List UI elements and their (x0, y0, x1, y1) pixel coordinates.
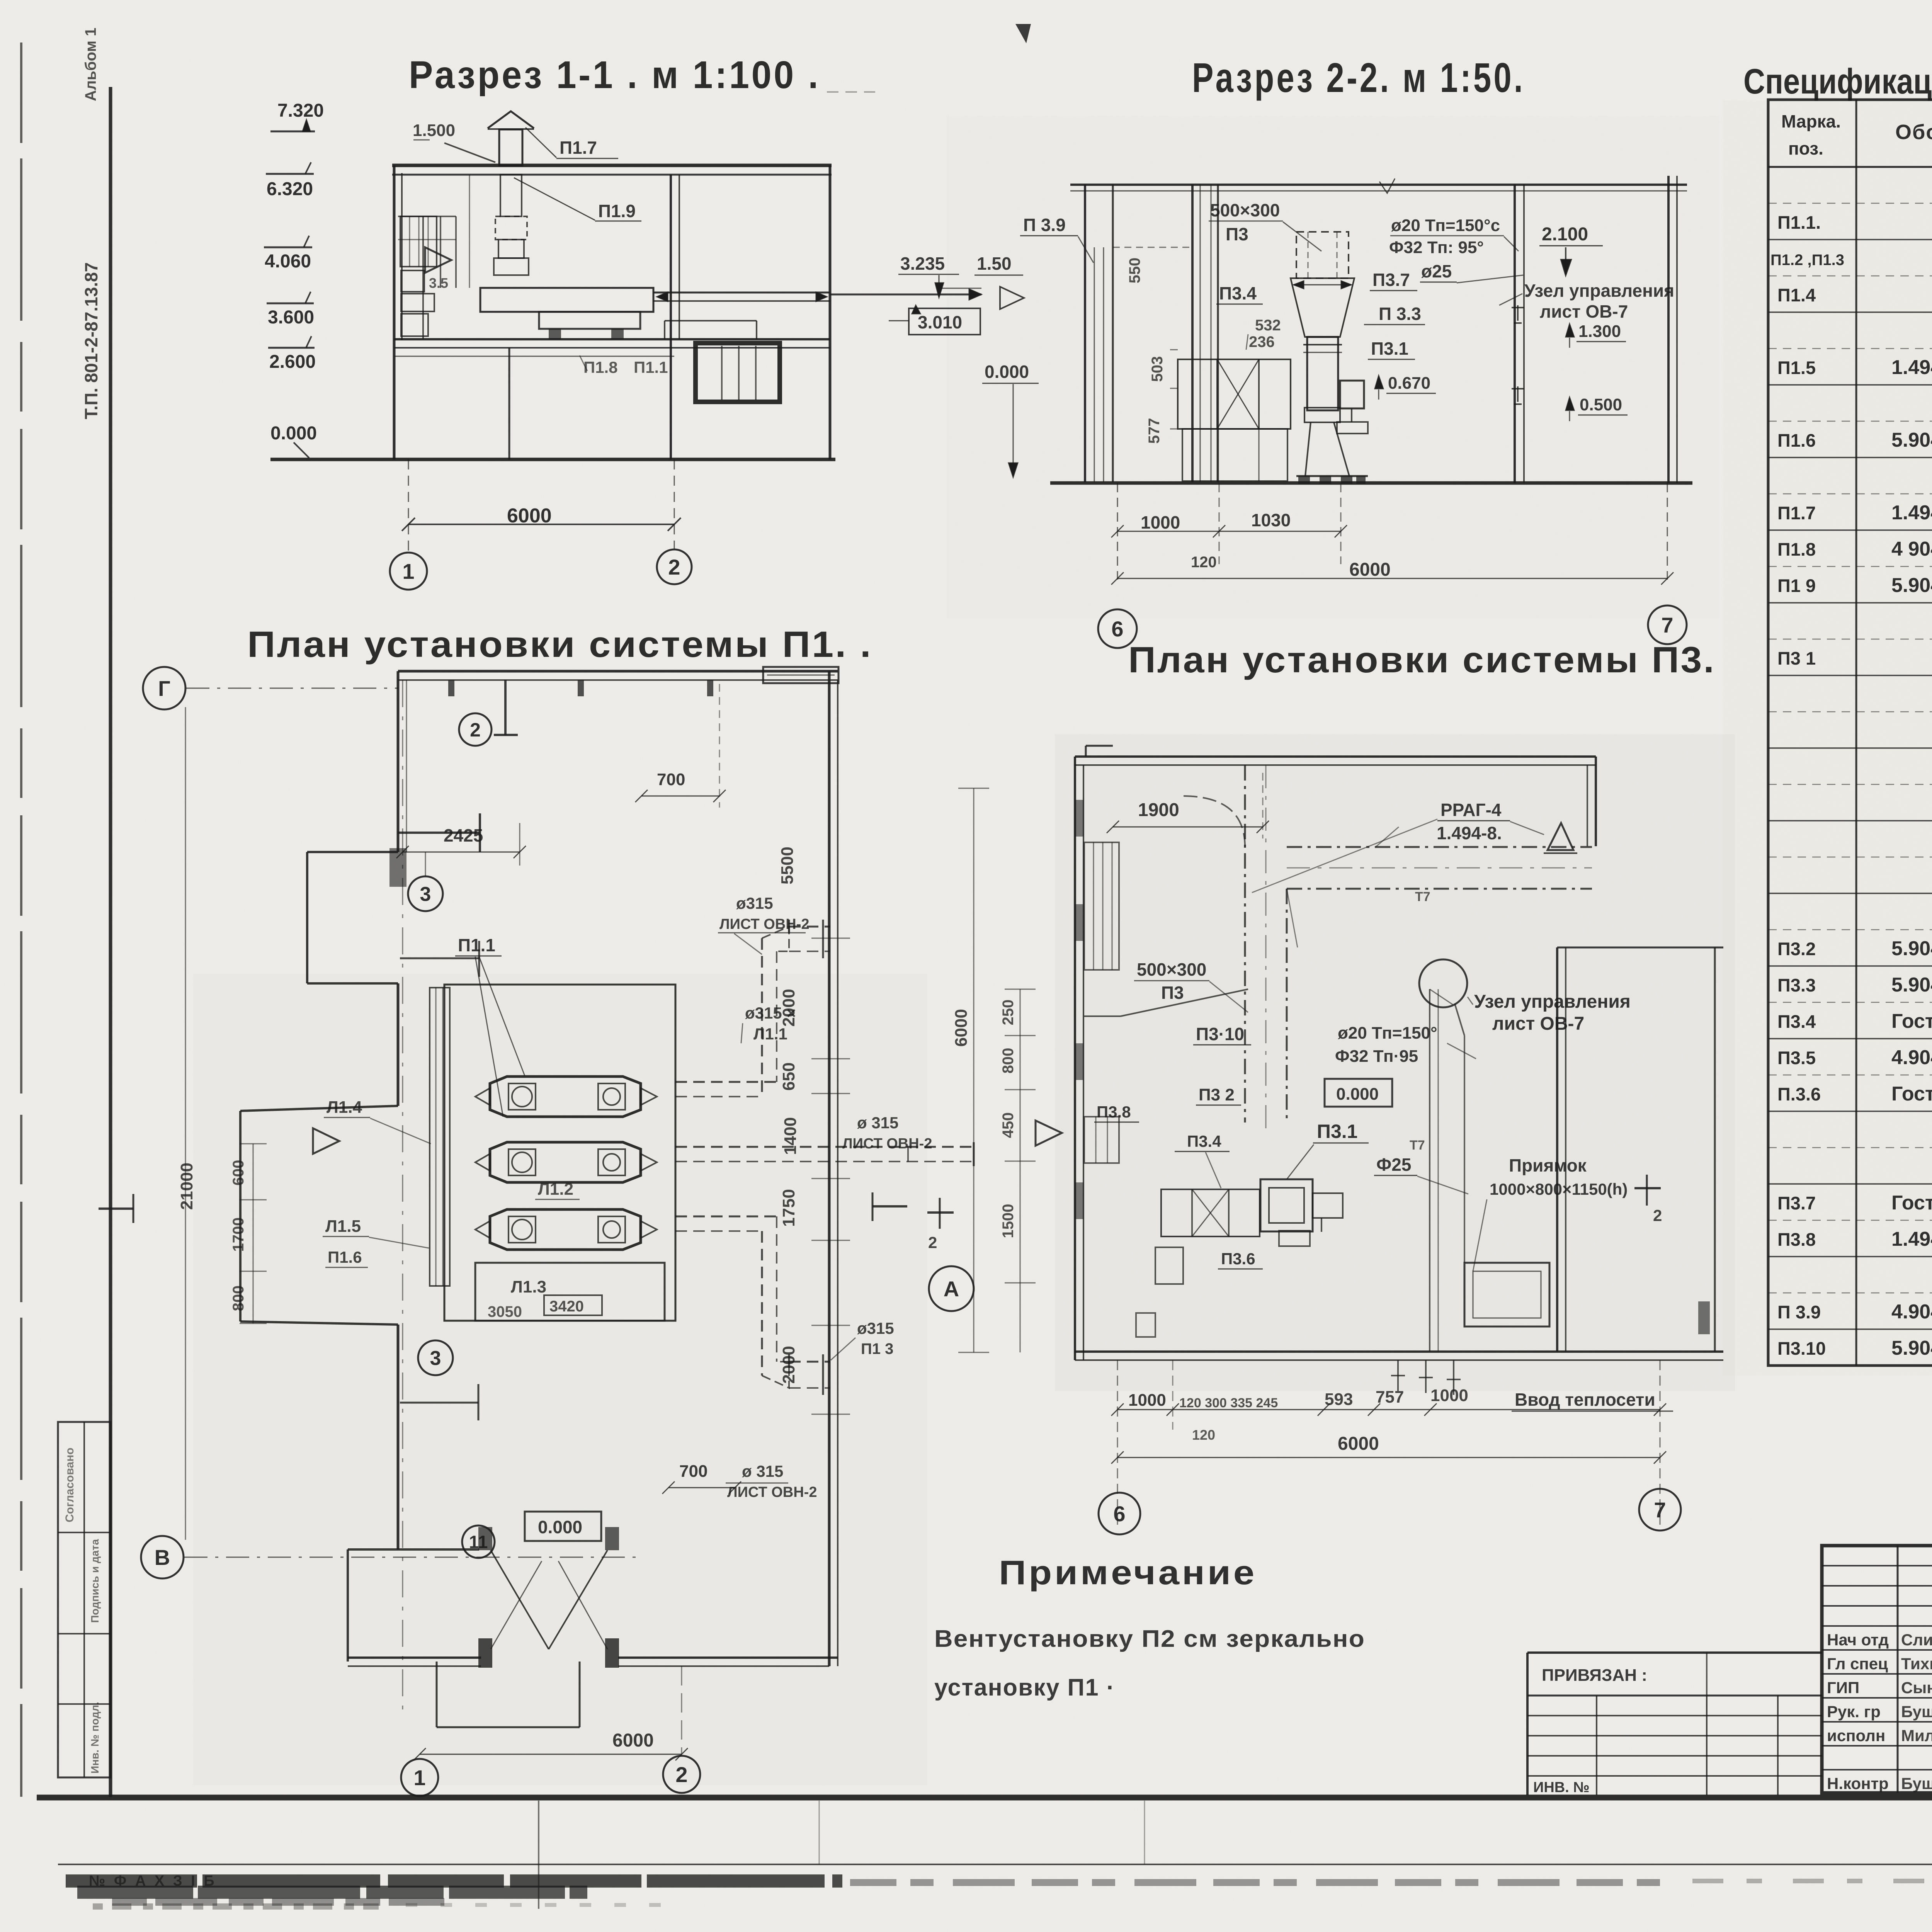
svg-text:П3.5: П3.5 (1777, 1048, 1816, 1068)
axis circle 7 plan P3 (1639, 1489, 1681, 1531)
rotated dim 550 section 2-2 (1113, 247, 1192, 283)
uzel upravleniya note section 2-2 (1499, 281, 1674, 321)
svg-text:Вентустановку П2 см зеркаль: Вентустановку П2 см зеркально (934, 1626, 1365, 1652)
svg-text:577: 577 (1146, 418, 1163, 444)
left dim chain 600 1700 800 plan P1 (230, 1144, 267, 1323)
duct stub beyond wall (830, 288, 981, 300)
svg-text:0.000: 0.000 (270, 423, 317, 444)
sheet left frame line (109, 87, 112, 1797)
svg-text:593: 593 (1325, 1390, 1353, 1409)
stray vertical line below frame (539, 1801, 1145, 1909)
svg-text:П 3.3: П 3.3 (1379, 304, 1421, 324)
svg-text:1.300: 1.300 (1578, 322, 1621, 341)
plan P3 right upper wall (1587, 757, 1596, 846)
svg-text:1030: 1030 (1251, 510, 1291, 530)
svg-text:Разрез 2-2. м 1:50.: Разрез 2-2. м 1:50. (1192, 54, 1525, 101)
svg-text:Гл спец: Гл спец (1827, 1655, 1888, 1673)
axis circle 11 plan P1 (462, 1526, 495, 1558)
plan P3 balloon circle (1419, 959, 1467, 1263)
plan P3 top wall (1075, 746, 1596, 765)
plan P3 pipe labels (1335, 1024, 1476, 1066)
svg-text:ЛИСТ ОВН-2: ЛИСТ ОВН-2 (727, 1484, 817, 1500)
pipe anchors section 2-2 (1512, 305, 1524, 404)
left labels L1.4 plan P1 (324, 1098, 431, 1144)
fan motor section 2-2 (1337, 381, 1368, 434)
plan P3 section mark 2 right (1634, 1175, 1662, 1225)
title Plan system P1 (247, 624, 872, 665)
plan P3 upper interior partition (1084, 989, 1248, 1016)
svg-text:5500: 5500 (778, 847, 797, 884)
svg-text:1500: 1500 (1000, 1204, 1017, 1238)
elevation 0.670 section 2-2 (1375, 374, 1436, 400)
elevation 2.100 section 2-2 (1539, 224, 1603, 275)
svg-text:532: 532 (1255, 317, 1281, 334)
svg-text:Гост 19904 - 74: Гост 19904 - 74 (1891, 1083, 1932, 1105)
title block outer frame (1822, 1546, 1932, 1793)
plan P3 T7 pipe marks (1410, 889, 1453, 1352)
svg-text:П3.4: П3.4 (1777, 1011, 1816, 1032)
elevation 0.500 section 2-2 (1566, 395, 1628, 421)
plan P1 bottom wall with door (348, 1658, 838, 1666)
flow triangle plan P1 (313, 1128, 339, 1154)
far right wall section 2-2 (1668, 176, 1677, 483)
ground line section 2-2 (1050, 481, 1692, 485)
axis circle 6 plan P3 (1099, 1493, 1140, 1534)
svg-text:Узел управления: Узел управления (1474, 992, 1631, 1012)
plan P3 left dim 6000 rotated (952, 788, 989, 1352)
plan P1 top right door insert (763, 667, 838, 683)
vent chamber inner channel plan P1 (430, 988, 450, 1286)
svg-text:поз.: поз. (1788, 138, 1823, 158)
svg-text:4 904 - 25: 4 904 - 25 (1891, 538, 1932, 560)
svg-text:П3.8: П3.8 (1777, 1229, 1816, 1250)
svg-text:500×300: 500×300 (1210, 200, 1280, 220)
plan P3 left pier details (1084, 842, 1119, 1163)
svg-text:3.235: 3.235 (900, 253, 945, 274)
svg-text:Ф32 Тп: 95°: Ф32 Тп: 95° (1389, 238, 1484, 257)
svg-text:Сынкин: Сынкин (1901, 1679, 1932, 1697)
album label rotated (82, 28, 99, 101)
svg-text:6000: 6000 (952, 1009, 971, 1047)
axis circle A plan P3 (929, 1266, 974, 1311)
svg-text:5.904 - 5: 5.904 - 5 (1891, 974, 1932, 996)
interior wall left room (509, 348, 510, 459)
svg-text:0.500: 0.500 (1580, 395, 1622, 414)
title block signature texts (1827, 1629, 1932, 1793)
specification table row lines (1768, 203, 1932, 1329)
axis circle 1 bottom plan P1 (401, 1759, 438, 1796)
bottom left codes (89, 1873, 217, 1889)
duct middle straight plan P1 (675, 1142, 974, 1166)
svg-text:П1.6: П1.6 (1777, 430, 1816, 451)
plan P3 heater block (1161, 1189, 1260, 1236)
svg-text:5.904 - 10: 5.904 - 10 (1891, 574, 1932, 597)
svg-text:Л1.3: Л1.3 (511, 1277, 546, 1296)
svg-text:5.904 - 4: 5.904 - 4 (1891, 1337, 1932, 1359)
label P1.2 inside chamber (535, 1180, 580, 1199)
label P1.9 (514, 178, 641, 221)
right wall section 2-2 (1515, 185, 1524, 483)
dim 2425 plan P1 (396, 823, 526, 866)
plan P3 label 500x300 (1134, 959, 1248, 1012)
svg-text:П1.6: П1.6 (328, 1248, 362, 1266)
svg-text:Подпись и дата: Подпись и дата (89, 1539, 101, 1623)
svg-text:6.320: 6.320 (267, 179, 313, 199)
bottom thin rule (58, 1859, 1932, 1864)
svg-text:установку П1 ·: установку П1 · (934, 1674, 1115, 1701)
svg-text:П3.7: П3.7 (1777, 1193, 1816, 1213)
svg-text:П3 1: П3 1 (1777, 648, 1816, 668)
axis circle 1 section 1-1 (390, 553, 427, 590)
svg-text:Узел управления: Узел управления (1524, 281, 1674, 301)
svg-text:Т7: Т7 (1410, 1138, 1425, 1153)
svg-text:План установки системы П1. .: План установки системы П1. . (247, 624, 872, 665)
title Razrez 1-1 (409, 53, 875, 97)
title block signature grid (1822, 1546, 1932, 1793)
primechanie title (999, 1553, 1257, 1592)
dim 6000 bottom plan P1 (413, 1730, 688, 1760)
svg-text:7: 7 (1661, 613, 1673, 637)
privyazan table (1527, 1653, 1822, 1796)
svg-text:5.904 - 5: 5.904 - 5 (1891, 937, 1932, 960)
svg-text:П1.9: П1.9 (598, 201, 636, 221)
svg-text:Т7: Т7 (1415, 889, 1430, 904)
svg-text:ГИП: ГИП (1827, 1679, 1859, 1697)
svg-text:120: 120 (1191, 554, 1217, 571)
svg-text:6000: 6000 (1349, 560, 1391, 580)
plan P3 label P3.8 (1094, 1103, 1139, 1122)
svg-text:21000: 21000 (177, 1163, 196, 1210)
svg-text:450: 450 (1000, 1112, 1017, 1138)
svg-text:П1.7: П1.7 (560, 138, 597, 158)
axis vertical dash line plan P1 (403, 680, 682, 1754)
plan P3 label fi25 (1374, 1155, 1468, 1194)
under-platform supports (665, 321, 757, 339)
plan P1 vestibule walls (348, 1549, 580, 1727)
svg-text:Гост 12.1.005 - 76: Гост 12.1.005 - 76 (1891, 1010, 1932, 1032)
svg-text:0.670: 0.670 (1388, 374, 1430, 393)
base boxes below heater section 2-2 (1182, 429, 1287, 481)
svg-text:Обозначение: Обозначение (1895, 121, 1932, 144)
svg-text:11: 11 (469, 1532, 488, 1552)
plan P3 top duct dashdot (1287, 847, 1592, 889)
label fi315 list OVN-2 middle (842, 1114, 932, 1152)
svg-text:Л1.2: Л1.2 (538, 1180, 573, 1199)
labels 532 236 section 2-2 (1246, 317, 1281, 350)
svg-text:5.904 - 4: 5.904 - 4 (1891, 429, 1932, 451)
plan P3 inlet boxes (1136, 1247, 1183, 1337)
svg-text:6000: 6000 (612, 1730, 654, 1751)
svg-text:0.000: 0.000 (985, 362, 1029, 382)
plan P3 left dim chain rotated (1000, 989, 1036, 1352)
left equipment stack section 1-1 (400, 216, 437, 336)
svg-text:П3.8: П3.8 (1097, 1103, 1131, 1121)
fan base legs section 2-2 (1296, 422, 1368, 484)
svg-text:2: 2 (928, 1233, 937, 1252)
plan P1 interior T-wall lower (400, 1384, 478, 1420)
svg-text:120: 120 (1192, 1427, 1215, 1443)
svg-text:2425: 2425 (444, 825, 483, 845)
svg-text:П3: П3 (1161, 983, 1184, 1003)
svg-text:П3.1: П3.1 (1317, 1121, 1357, 1142)
label P3.9 section 2-2 (1020, 215, 1094, 263)
specification table header texts (1781, 111, 1932, 158)
svg-text:Приямок: Приямок (1509, 1155, 1587, 1175)
vent chamber rectangle plan P1 (444, 985, 675, 1321)
top center registration mark (1015, 24, 1031, 43)
axis circle 2 top plan P1 (459, 713, 492, 746)
svg-text:250: 250 (1000, 1000, 1017, 1026)
svg-text:П3.7: П3.7 (1372, 270, 1410, 290)
svg-text:Спецификация отопительно - вен: Спецификация отопительно - вентиляционны… (1743, 62, 1932, 101)
plan P3 bottom pipe stubs (1391, 1360, 1461, 1395)
svg-text:П1.2 ,П1.3: П1.2 ,П1.3 (1770, 252, 1844, 269)
svg-text:П.3.6: П.3.6 (1777, 1084, 1821, 1104)
primechanie line 1 (934, 1626, 1365, 1652)
svg-text:РРАГ-4: РРАГ-4 (1440, 800, 1502, 820)
svg-text:2: 2 (668, 555, 680, 579)
heater unit P1.1 plan (475, 1077, 657, 1117)
plan P1 top wall (398, 671, 838, 696)
axis circle 3 lower plan P1 (418, 1340, 453, 1375)
svg-text:600: 600 (230, 1160, 247, 1186)
svg-text:П1.1: П1.1 (458, 935, 495, 955)
interior equipment labels section 1-1 (580, 355, 668, 376)
plan P1 left wall lower (397, 1325, 400, 1549)
series label rotated (81, 262, 101, 419)
svg-text:2.100: 2.100 (1542, 224, 1588, 245)
svg-text:Л1.5: Л1.5 (325, 1217, 361, 1236)
heat recovery unit platform section 1-1 (480, 288, 653, 339)
svg-text:П3.3: П3.3 (1777, 975, 1816, 995)
dim 6000 section 2-2 (1111, 483, 1673, 585)
section mark 1 left plan P1 (99, 1194, 133, 1223)
plan P3 dim 6000 bottom (1111, 1434, 1666, 1464)
elevation mark 0.000 (270, 423, 317, 458)
svg-text:Слизкин: Слизкин (1901, 1631, 1932, 1649)
svg-text:1.500: 1.500 (413, 121, 455, 140)
svg-text:П1.5: П1.5 (1777, 357, 1816, 378)
svg-text:Нач отд: Нач отд (1827, 1631, 1889, 1649)
svg-text:2: 2 (1653, 1206, 1662, 1225)
svg-text:800: 800 (1000, 1048, 1017, 1074)
svg-text:500×300: 500×300 (1137, 959, 1206, 980)
specification table body texts (1770, 173, 1932, 1359)
svg-text:1: 1 (413, 1765, 425, 1790)
axis dim 6000 section 1-1 (402, 459, 681, 553)
interior wall right double (671, 175, 679, 459)
svg-text:650: 650 (779, 1062, 798, 1090)
plan P3 label P3.1 (1287, 1121, 1369, 1179)
svg-text:Альбом 1: Альбом 1 (82, 28, 99, 101)
svg-text:4.904 - 25: 4.904 - 25 (1891, 1046, 1932, 1069)
svg-text:1400: 1400 (781, 1117, 800, 1155)
svg-text:П3 2: П3 2 (1199, 1085, 1235, 1104)
elevation mark 2.600 (268, 336, 316, 372)
plan P3 label P3.4 (1175, 1132, 1230, 1188)
specification title (1743, 62, 1932, 101)
section mark 1 right plan P1 (872, 1192, 907, 1221)
boxed elevation 0.000 plan P1 (525, 1512, 601, 1541)
svg-text:П3: П3 (1226, 224, 1248, 244)
vent label 1.500 (413, 121, 495, 162)
svg-text:3: 3 (420, 883, 431, 906)
svg-text:Бушуева: Бушуева (1901, 1774, 1932, 1793)
elevation mark 3.600 (267, 292, 314, 328)
bottom smudge band 2 (93, 1905, 676, 1906)
label P3.1 section 2-2 (1368, 338, 1415, 359)
left margin stamp boxes (58, 1422, 111, 1777)
axis circle 2 section 1-1 (657, 549, 692, 584)
bottom smudge band 1 (66, 1879, 1932, 1902)
svg-text:ø315: ø315 (736, 894, 773, 912)
svg-text:3.5: 3.5 (429, 275, 448, 291)
plan P3 vvod teploseti (1512, 1389, 1673, 1411)
heater block section 2-2 (1178, 359, 1291, 429)
title Razrez 2-2 (1192, 54, 1525, 101)
svg-text:Н.контр: Н.контр (1827, 1774, 1889, 1793)
svg-text:3050: 3050 (488, 1303, 522, 1320)
svg-text:ø25: ø25 (1421, 261, 1452, 281)
dim 21000 rotated plan P1 (177, 707, 196, 1540)
svg-text:236: 236 (1249, 333, 1275, 350)
svg-text:3.600: 3.600 (268, 307, 314, 328)
svg-text:503: 503 (1149, 356, 1166, 382)
svg-text:1000: 1000 (1141, 512, 1180, 532)
label fi315 P1.3 lower right (831, 1319, 894, 1360)
svg-text:П1.1.: П1.1. (1777, 212, 1821, 233)
plan P3 RRAG-4 flag (1252, 800, 1577, 893)
left labels L1.5 plan P1 (323, 1217, 429, 1248)
sheet left broken margin line (20, 43, 22, 1797)
plan P3 label P3.10 (1193, 1024, 1251, 1045)
svg-text:Ф25: Ф25 (1376, 1155, 1411, 1175)
svg-text:лист ОВ-7: лист ОВ-7 (1492, 1014, 1584, 1034)
svg-text:1000×800×1150(h): 1000×800×1150(h) (1490, 1180, 1628, 1198)
fan transition cone section 2-2 (1291, 278, 1354, 337)
svg-text:ø315: ø315 (857, 1319, 894, 1337)
svg-text:4.060: 4.060 (265, 251, 311, 272)
label P1.1 with leaders plan (455, 935, 525, 1117)
axis circle 2 bottom plan P1 (663, 1756, 700, 1793)
svg-text:6000: 6000 (1338, 1434, 1379, 1454)
plan P1 upper-left niche (307, 848, 406, 983)
label fi315 L1.1 (741, 1004, 796, 1043)
specification table outer grid (1768, 100, 1932, 1366)
svg-text:Согласовано: Согласовано (63, 1447, 76, 1522)
svg-text:2: 2 (675, 1762, 687, 1787)
svg-text:Г: Г (158, 676, 170, 701)
plan P1 left wall mid (397, 983, 400, 1106)
plan P3 left wall (1075, 757, 1083, 1360)
plan P1 mid-left niche (240, 1106, 398, 1325)
fan body section 2-2 (1303, 337, 1342, 422)
label P3.3 section 2-2 (1364, 304, 1425, 325)
svg-text:4.904 - 16: 4.904 - 16 (1891, 1301, 1932, 1323)
primechanie line 2 (934, 1674, 1115, 1701)
duct elbow upper plan P1 (675, 920, 830, 1097)
svg-text:ø20 Тп=150°с: ø20 Тп=150°с (1391, 216, 1500, 235)
plan P1 interior T-wall top (494, 680, 518, 735)
marker 1.50 triangle section 2-2 (975, 253, 1024, 309)
ground line section 1-1 (270, 458, 835, 461)
svg-text:Л1.4: Л1.4 (327, 1098, 362, 1117)
dim 700 top plan P1 (635, 684, 726, 808)
plan P1 interior T-wall second (398, 813, 480, 852)
right dim ticks plan P1 (811, 938, 850, 1414)
svg-text:План установки системы П3.: План установки системы П3. (1128, 639, 1716, 680)
plan P3 vertical duct dashdot (1182, 765, 1287, 1132)
svg-text:П3.4: П3.4 (1187, 1132, 1221, 1150)
svg-text:ПРИВЯЗАН :: ПРИВЯЗАН : (1542, 1666, 1647, 1685)
svg-text:2.600: 2.600 (269, 352, 316, 372)
heater unit P1.3 plan (475, 1209, 657, 1250)
svg-text:1750: 1750 (779, 1189, 798, 1227)
duct elbow lower plan P1 (675, 1216, 830, 1395)
plan P3 pit pryamok (1464, 1263, 1549, 1327)
svg-text:Л1.1: Л1.1 (753, 1025, 787, 1043)
building outline section 1-1 (392, 165, 832, 459)
svg-text:Т.П. 801-2-87.13.87: Т.П. 801-2-87.13.87 (81, 262, 101, 419)
axis G circle plan P1 (143, 667, 398, 709)
svg-text:3: 3 (430, 1347, 441, 1370)
svg-text:700: 700 (657, 770, 685, 789)
svg-text:2000: 2000 (779, 989, 798, 1027)
P1.3 equipment box plan (475, 1263, 665, 1321)
plan P1 interior T-wall third (400, 941, 479, 977)
label fi315 list OVN-2 upper (718, 894, 809, 954)
rotated dims 503 577 section 2-2 (1146, 350, 1178, 444)
plan P3 label P3.2 (1196, 1085, 1241, 1105)
roof vent chimney (488, 111, 534, 165)
axis V circle plan P1 (141, 1536, 641, 1578)
svg-text:Бушуева: Бушуева (1901, 1702, 1932, 1721)
label 500x300 P3 section 2-2 (1209, 200, 1321, 251)
svg-text:П1.7: П1.7 (1777, 503, 1816, 523)
svg-text:А: А (944, 1277, 959, 1301)
plan P3 pryamok text (1473, 1155, 1628, 1271)
duct to right wall section 1-1 (653, 292, 830, 301)
svg-text:лист ОВ-7: лист ОВ-7 (1540, 301, 1628, 321)
svg-text:0.000: 0.000 (538, 1517, 582, 1537)
svg-text:П1 3: П1 3 (861, 1340, 893, 1357)
plan P3 door column right (1698, 1301, 1710, 1334)
plan P3 bottom wall (1075, 1352, 1723, 1360)
label P3.7 section 2-2 (1370, 270, 1417, 291)
svg-text:ЛИСТ ОВН-2: ЛИСТ ОВН-2 (842, 1136, 932, 1152)
svg-text:Гост 19904 - 74: Гост 19904 - 74 (1891, 1192, 1932, 1214)
svg-text:Ввод теплосети: Ввод теплосети (1515, 1389, 1655, 1410)
svg-text:1.50: 1.50 (977, 253, 1012, 274)
elevation 3.235 right (898, 253, 959, 298)
svg-text:ЛИСТ ОВН-2: ЛИСТ ОВН-2 (719, 916, 809, 932)
svg-text:Тихвинскии: Тихвинскии (1901, 1655, 1932, 1673)
svg-text:7: 7 (1654, 1498, 1666, 1522)
svg-text:3420: 3420 (549, 1298, 584, 1315)
title Plan system P3 (1128, 639, 1716, 680)
plan P1 left wall upper (398, 671, 406, 852)
svg-text:П3.6: П3.6 (1221, 1250, 1255, 1268)
label P1.7 (526, 128, 618, 158)
plan P3 uzel upravleniya text (1468, 992, 1631, 1034)
svg-text:550: 550 (1126, 258, 1143, 284)
plan P1 right wall (829, 671, 838, 1666)
ceiling line section 2-2 (1070, 179, 1687, 193)
svg-text:В: В (155, 1545, 170, 1570)
svg-text:1.494 - 32: 1.494 - 32 (1891, 502, 1932, 524)
svg-text:1.494 - 26: 1.494 - 26 (1891, 1228, 1932, 1250)
svg-text:П1 9: П1 9 (1777, 575, 1816, 596)
